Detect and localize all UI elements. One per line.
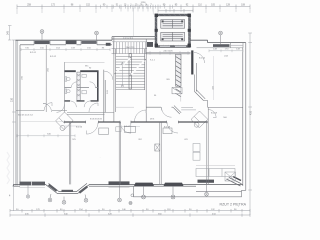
stair break line [115, 57, 147, 76]
radiator bottom R2 [109, 181, 130, 185]
shaft corner blocks [155, 14, 191, 47]
stair arrow [121, 62, 123, 86]
valve porch 1 [142, 186, 146, 199]
radiator split line [31, 182, 33, 186]
sink 1 [82, 74, 86, 77]
radiator top right [213, 44, 230, 47]
stair landing bottom line [116, 106, 134, 108]
bathroom top wall [65, 70, 99, 72]
svg-text:345: 345 [7, 30, 10, 35]
svg-text:18x17/29: 18x17/29 [126, 47, 135, 49]
valve porch 2 [171, 186, 175, 199]
shaft wall hatch line [156, 15, 190, 47]
svg-text:B.2.07: B.2.07 [124, 126, 131, 128]
room divider R4/R5 [207, 107, 208, 184]
room divider R1/R2 [69, 122, 70, 184]
cupboard next to hatch [172, 88, 182, 94]
corridor bottom wall dark [64, 121, 208, 123]
radiator porch 1 [134, 183, 154, 186]
shaft hatch left side [155, 17, 157, 42]
dim line in R1 [17, 134, 75, 137]
top chain dense ticks [101, 5, 173, 9]
door arc U2 [57, 104, 65, 112]
door arc R5 [208, 110, 216, 118]
svg-text:B.2.05 20,5 m2: B.2.05 20,5 m2 [18, 115, 34, 117]
pier right of stair window [147, 42, 153, 47]
rotated desk left corridor [56, 112, 74, 131]
desk R2 [99, 128, 109, 134]
valve bottom R2b [129, 201, 132, 204]
svg-text:WC: WC [85, 65, 89, 67]
lobby door arcs below core [70, 101, 90, 107]
corridor top wall double [67, 112, 114, 114]
wall U2/bath divider [64, 62, 66, 112]
top wall right section [190, 40, 246, 48]
top-right room door arc [194, 53, 205, 64]
valve top 2 [95, 31, 99, 41]
door arc R3 [121, 123, 132, 134]
lobby bottom wall [146, 106, 173, 108]
bathroom right wall [97, 71, 99, 102]
bottom dimension chain 2 [10, 213, 250, 216]
bottom wall mid segment [89, 184, 134, 186]
vent duct R4 [155, 144, 160, 151]
bathroom partition [65, 87, 99, 89]
bottom wall right segment [134, 184, 243, 186]
radiator porch 2 [164, 183, 184, 186]
svg-text:B 05 B 05 B: B 05 B 05 B [90, 118, 102, 120]
valve bottom R2a [118, 185, 122, 202]
stall door arc 1 [71, 82, 77, 88]
wall U1/U2 divider [45, 45, 47, 112]
room divider R2/R3 [119, 122, 120, 184]
room labels [30, 52, 218, 129]
bay window left diagonal [46, 183, 59, 193]
stair landing line [116, 89, 145, 91]
radiator top 2 [82, 41, 97, 44]
rotated desk in corridor right [191, 111, 208, 128]
room divider R3/R4 [160, 122, 161, 184]
desk R3 [125, 126, 136, 132]
bathroom bottom wall segments [65, 100, 99, 102]
svg-text:B.2.04: B.2.04 [199, 57, 206, 59]
stair left wall [114, 37, 116, 122]
bay window front [58, 192, 78, 194]
corridor chamfer left [173, 106, 181, 114]
bottom dimension numbers [16, 209, 237, 215]
door jamb ticks corridor [65, 121, 208, 124]
svg-text:240 18 96: 240 18 96 [163, 50, 173, 52]
door arc top of corridor branch [104, 71, 113, 80]
right outer wall [243, 43, 246, 191]
stair treads [116, 56, 145, 87]
toilet 1 [65, 77, 70, 81]
cabinets R5 [193, 144, 200, 152]
svg-text:420: 420 [250, 110, 253, 115]
elevator car 1 [161, 20, 185, 29]
door arc U1 to corridor [44, 103, 52, 111]
left dimension lines [8, 26, 16, 212]
sheet fold mark left edge [7, 152, 10, 184]
bay window right diagonal [77, 183, 90, 193]
valve top 1 [40, 30, 44, 41]
toilet 2 [65, 89, 70, 93]
valve bay 1 [48, 194, 52, 202]
top wall left section [16, 40, 113, 45]
door arc U1 [43, 104, 52, 113]
small desk R2 right [116, 127, 121, 132]
shaft extension drop lines [134, 8, 154, 36]
table R5 [196, 165, 236, 181]
bottom dimension chain 1 [10, 209, 250, 213]
pier left of stair window [106, 43, 111, 46]
door arc R4 [167, 122, 178, 133]
shaft bottom walls [146, 51, 190, 55]
top dimension chain [17, 5, 250, 15]
top-right room west wall [195, 63, 197, 92]
radiator bay front [62, 190, 74, 192]
stair center rail [129, 54, 131, 89]
top dimension numbers [27, 5, 246, 7]
stairs-down diagonal bottom right [227, 177, 242, 187]
bathroom duct hatched [77, 72, 80, 100]
corridor west vertical walls [104, 70, 105, 122]
stair right wall [145, 39, 147, 122]
right dimension line [248, 33, 252, 215]
hatched wall right of lobby [176, 54, 181, 96]
valve top right [219, 31, 223, 44]
shaft hatch right side [189, 17, 191, 42]
misc small furniture R4 [163, 128, 172, 134]
svg-text:RZUT 2 PIĘTRA: RZUT 2 PIĘTRA [220, 203, 247, 207]
svg-text:B.2.01: B.2.01 [30, 52, 37, 54]
valve porch small [131, 194, 134, 197]
porch outline [134, 186, 246, 197]
window jamb ticks [34, 40, 243, 48]
svg-text:B.2.08: B.2.08 [164, 127, 171, 129]
corridor faint lower line [64, 125, 140, 128]
left outer wall [16, 40, 20, 185]
sink 2 [82, 90, 86, 93]
shaft door sill [160, 45, 186, 47]
scattered tiny dimension texts [22, 47, 228, 159]
radiator bottom R1 [20, 182, 46, 186]
valve bottom left [26, 185, 29, 198]
shaft sub-dimension line [158, 9, 193, 13]
svg-text:K.2.1: K.2.1 [150, 59, 156, 61]
radiator bay right [79, 186, 88, 194]
svg-text:1296: 1296 [141, 2, 147, 4]
window sill lines bottom [20, 187, 130, 189]
radiator top 1 [35, 41, 50, 44]
svg-text:1 0 5 2 4 0: 1 0 5 2 4 0 [123, 38, 134, 40]
stall door arc 2 [90, 82, 96, 88]
light line above bathroom [65, 62, 105, 64]
stair top flight [112, 42, 148, 54]
lobby door arc to corridor [89, 103, 98, 112]
svg-text:B.2.02: B.2.02 [50, 56, 57, 58]
valve bay 2 [62, 197, 66, 205]
window pier dark [66, 41, 77, 45]
elevator car 2 [161, 32, 185, 41]
valve bay 3 [84, 195, 88, 203]
corridor top wall right part [181, 107, 196, 110]
top-right room bottom wall [204, 101, 243, 108]
corridor text row [18, 115, 155, 121]
chamfer SW corner of top-right room [195, 90, 206, 101]
interior dim line right room [209, 49, 243, 52]
svg-text:B.2.06: B.2.06 [76, 127, 83, 129]
valve porch 3 [205, 183, 209, 196]
radiator bay left [48, 184, 57, 192]
door arc R2 [87, 123, 99, 135]
lobby door arc [162, 107, 172, 117]
upper rooms bottom wall left [16, 110, 67, 112]
svg-text:230: 230 [11, 97, 14, 102]
top wall middle section (stair zone) [112, 37, 156, 42]
svg-text:B.2.09: B.2.09 [211, 112, 218, 114]
radiator porch 3 [198, 180, 215, 183]
interior dim line below top wall [21, 48, 110, 51]
shaft outer wall [156, 15, 190, 47]
landing door arc [135, 110, 147, 122]
dim extension top-right room [213, 56, 215, 100]
dark wall right of shaft landing [191, 50, 193, 74]
bottom wall left segment [14, 184, 47, 186]
